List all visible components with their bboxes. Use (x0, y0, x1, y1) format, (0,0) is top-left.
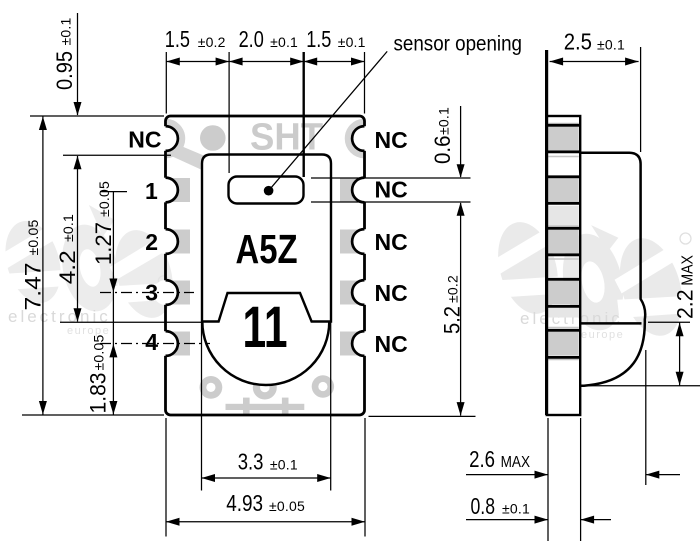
svg-text:1.83: 1.83 (86, 373, 111, 414)
svg-text:±0.1: ±0.1 (270, 34, 298, 50)
centerline pin4 (100, 343, 210, 345)
svg-text:±0.1: ±0.1 (502, 501, 530, 517)
svg-text:±0.2: ±0.2 (198, 34, 226, 50)
leader sensor opening (269, 51, 388, 190)
arrow 0.95 up shared 4.2 (74, 156, 82, 170)
watermark left logo O (51, 200, 133, 316)
gray dot marking (200, 125, 226, 151)
svg-text:europe: europe (581, 329, 624, 341)
svg-text:2.0: 2.0 (239, 26, 264, 52)
WATERMARKS (0, 200, 699, 346)
ext line package right lower (364, 418, 366, 537)
svg-text:2.2: 2.2 (673, 290, 698, 320)
arrow 2.5 left (550, 58, 564, 66)
side body bottom edge (580, 322, 641, 325)
dim line 2.6 left (466, 474, 548, 476)
notches left (NC,1,2,3,4) (153, 126, 178, 356)
arrow 2.5 right (625, 58, 639, 66)
arrow 0.95 down (74, 102, 82, 116)
arrow 4.93 left (166, 518, 180, 526)
dim line 2.6 right (646, 474, 680, 476)
pin1 marker ring left with tail (149, 122, 216, 170)
dim line 0.8 left (466, 519, 548, 521)
svg-text:±0.1: ±0.1 (58, 18, 74, 46)
svg-text:±0.2: ±0.2 (445, 275, 461, 303)
side pad thin lines (548, 124, 579, 360)
watermark right logo O (553, 220, 636, 336)
sensor opening (229, 177, 304, 204)
ext line side body right (640, 47, 642, 152)
side pads strip outline (547, 116, 580, 415)
dim line 4.93 (166, 521, 365, 523)
dim line 3.3 (202, 477, 331, 479)
ARROWHEADS (39, 58, 684, 526)
watermark left logo S2 (96, 221, 189, 327)
svg-text:NC: NC (375, 229, 408, 255)
ext line side body bottom flat (648, 321, 690, 323)
svg-text:NC: NC (128, 126, 161, 152)
arrow 5.2 down (457, 402, 465, 416)
arrow 7.47 up (39, 117, 47, 131)
ext line dome bottom side (581, 385, 700, 387)
watermark left registered mark (158, 276, 168, 286)
ext line cap bottom (60, 321, 202, 323)
svg-text:±0.05: ±0.05 (96, 181, 112, 217)
svg-text:MAX: MAX (680, 255, 697, 286)
bottom washer right (312, 375, 334, 397)
bottom gray bracket (243, 398, 250, 415)
svg-text:1.5: 1.5 (306, 26, 331, 52)
marker ring right (348, 122, 381, 155)
dim line 0.8 right (581, 519, 611, 521)
ext line package bottom right (369, 415, 476, 417)
arrow 2.0 left (229, 58, 243, 66)
SIDEVIEW (547, 50, 646, 415)
ext line notch bottom right (311, 201, 471, 203)
ext line sensor opening left (228, 52, 230, 173)
dim line 1.27 / 1.83 (112, 192, 114, 415)
sensor opening dot (264, 186, 274, 196)
arrow 1.5b left (304, 58, 318, 66)
package outline (166, 116, 365, 415)
dim line 2.2 (679, 322, 681, 386)
FRONTVIEW (100, 116, 408, 415)
inner cap outline with trapezoid (202, 155, 331, 322)
svg-text:11: 11 (243, 295, 288, 360)
arrow 1.5b right (351, 58, 365, 66)
arrow 2.6 right in (646, 471, 660, 479)
svg-text:±0.1: ±0.1 (435, 107, 451, 135)
arrow 4.93 right (352, 518, 366, 526)
svg-text:NC: NC (375, 177, 408, 203)
svg-text:A5Z: A5Z (236, 226, 298, 272)
dim line 2.5 (550, 61, 639, 63)
bottom washer left (200, 376, 223, 399)
svg-text:0.8: 0.8 (471, 493, 496, 519)
svg-text:NC: NC (375, 127, 408, 153)
watermark right logo S2 (600, 229, 700, 346)
arrow 2.2 up (676, 323, 684, 337)
tick pin1 row (100, 191, 127, 193)
svg-text:SHT: SHT (250, 117, 323, 159)
arrow 1.83 down (109, 401, 117, 415)
svg-text:±0.1: ±0.1 (338, 34, 366, 50)
centerline pin3 (100, 292, 194, 294)
dim line 4.2 shared (77, 156, 79, 322)
dim line 0.95 upper (77, 13, 79, 115)
arrow 1.27 down (109, 279, 117, 293)
ext line top left package (165, 52, 167, 114)
left pin pads (pins 1-4) (167, 178, 190, 202)
svg-text:1.5: 1.5 (165, 26, 190, 52)
sensor cavity dome (202, 322, 329, 386)
svg-text:3: 3 (145, 280, 158, 306)
svg-text:1.27: 1.27 (91, 222, 116, 265)
ext line strip right lower (580, 418, 582, 541)
right pin pads (340, 178, 363, 202)
arrow 5.2 up (457, 202, 465, 216)
arrow 3.3 right (317, 474, 331, 482)
arrow 4.2 down (74, 308, 82, 322)
svg-text:2.6: 2.6 (469, 446, 495, 472)
svg-text:2: 2 (145, 229, 158, 255)
dim line 7.47 (42, 117, 44, 415)
svg-text:±0.05: ±0.05 (91, 335, 107, 371)
svg-text:sensor opening: sensor opening (394, 32, 523, 55)
svg-text:NC: NC (375, 331, 408, 357)
watermark right registered mark (680, 233, 691, 244)
dim line 5.2 (460, 203, 462, 416)
svg-text:3.3: 3.3 (238, 449, 264, 475)
svg-text:MAX: MAX (501, 454, 531, 471)
arrow 1.5a right (216, 58, 230, 66)
svg-text:7.47: 7.47 (20, 263, 45, 311)
arrow 0.6 down (457, 164, 465, 178)
svg-text:±0.05: ±0.05 (269, 498, 305, 514)
side pad separators (547, 125, 580, 357)
ext line package bottom left (22, 414, 164, 416)
svg-text:±0.05: ±0.05 (25, 220, 41, 256)
arrow 1.5a left (166, 58, 180, 66)
svg-text:5.2: 5.2 (440, 306, 465, 334)
svg-text:NC: NC (375, 280, 408, 306)
side body outline (580, 153, 645, 386)
ext line package top left (30, 115, 164, 117)
ext line cap top left (63, 154, 171, 156)
svg-text:0.6: 0.6 (430, 136, 455, 165)
side pad light bands (548, 206, 579, 318)
arrow 2.2 down (676, 372, 684, 386)
ext line bulge lower (645, 350, 647, 485)
ext line notch top right (311, 177, 471, 179)
watermark left logo S (0, 213, 76, 313)
arrow 0.8 left in (535, 516, 549, 524)
arrow 2.6 left in (535, 471, 549, 479)
ext line strip left lower (547, 418, 549, 541)
ext line cap right lower (330, 322, 332, 491)
arrow 1.83 up (109, 344, 117, 358)
notches right (352, 126, 377, 356)
arrow 3.3 left (202, 474, 216, 482)
bottom washer middle (253, 376, 277, 400)
ext line cap left lower (201, 323, 203, 491)
dim line top pitch (166, 61, 364, 63)
watermark right logo S (479, 213, 575, 323)
arrow 0.8 right in (581, 516, 595, 524)
side pad gray bands (548, 127, 579, 355)
svg-text:±0.1: ±0.1 (60, 214, 76, 242)
ext line sensor opening right thick (303, 52, 305, 177)
ext line package left lower (165, 418, 167, 537)
svg-text:4.93: 4.93 (226, 490, 263, 516)
ext line top right package (364, 52, 366, 114)
svg-text:2.5: 2.5 (564, 29, 592, 55)
svg-text:1: 1 (145, 178, 158, 204)
side strip thick left edge / extension (545, 50, 548, 415)
svg-text:±0.1: ±0.1 (270, 457, 298, 473)
arrow 2.0 right (290, 58, 304, 66)
svg-text:0.95: 0.95 (52, 51, 77, 90)
svg-text:4.2: 4.2 (55, 250, 80, 284)
dim line 0.6 (460, 106, 462, 177)
arrow 7.47 down (39, 401, 47, 415)
svg-text:±0.1: ±0.1 (597, 37, 625, 53)
svg-text:4: 4 (145, 329, 158, 355)
